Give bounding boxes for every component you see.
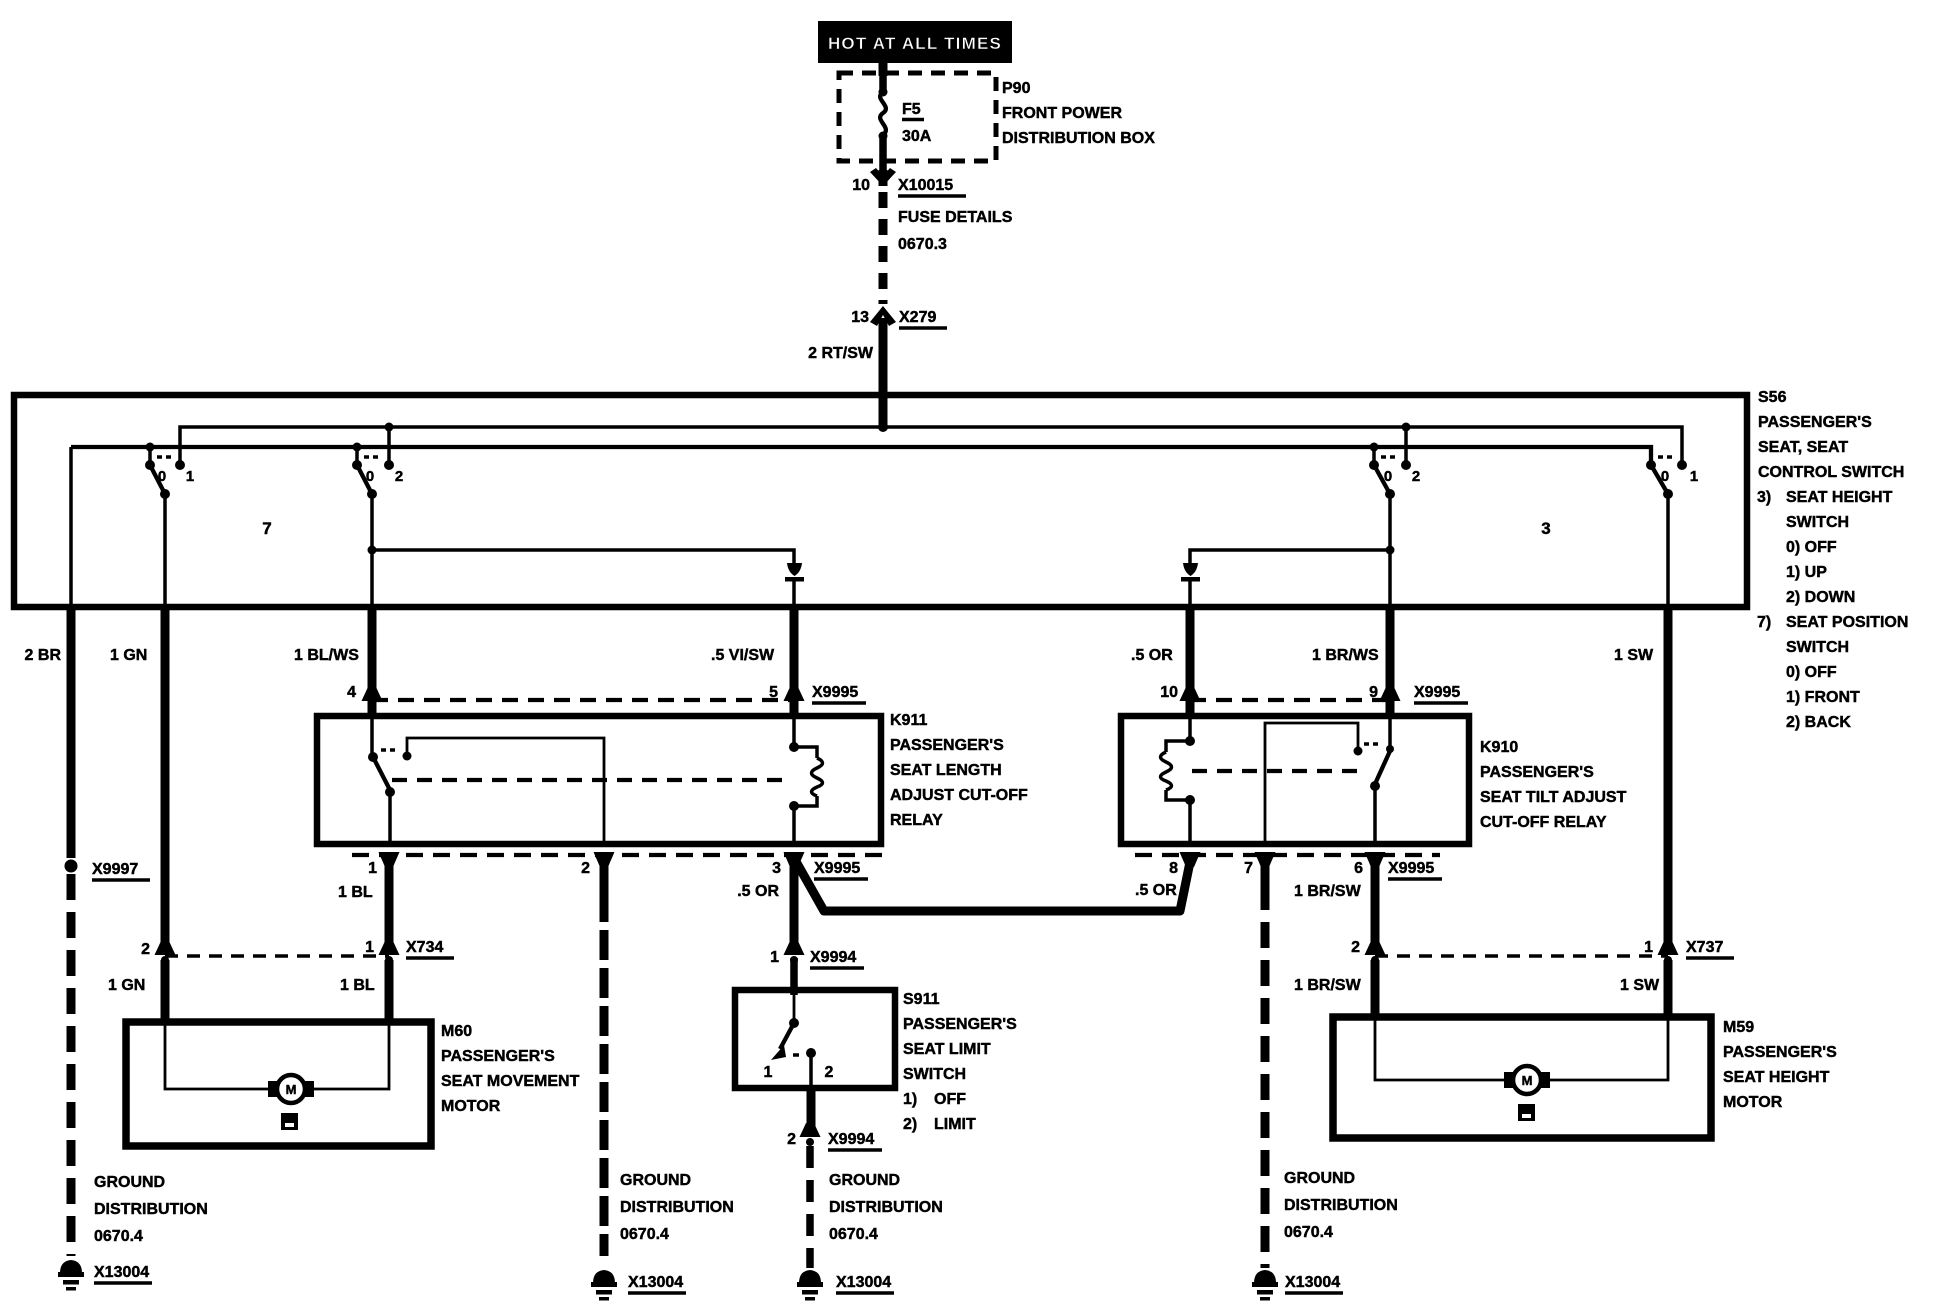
connector X10015 pin 10: [852, 168, 966, 196]
svg-text:2: 2: [395, 468, 403, 485]
connector X9995 top line K911: [347, 684, 866, 710]
svg-text:S911: S911: [903, 991, 940, 1008]
svg-text:X13004: X13004: [1285, 1274, 1340, 1291]
svg-text:M59: M59: [1723, 1019, 1754, 1036]
svg-text:2 BR: 2 BR: [25, 647, 62, 664]
label FUSE DETAILS 0670.3: [898, 209, 1013, 253]
wire 1SW X737 to M59: [1664, 960, 1673, 1017]
wire switch2 output to pin4 and crosslink: [368, 494, 795, 607]
wire 1SW to X737: [1664, 607, 1673, 948]
motor M59 internal wiring: [1375, 1020, 1668, 1080]
svg-text:0670.3: 0670.3: [898, 236, 947, 253]
svg-text:M: M: [286, 1082, 297, 1097]
svg-text:GROUND: GROUND: [620, 1172, 691, 1189]
svg-text:SEAT, SEAT: SEAT, SEAT: [1758, 439, 1848, 456]
node hot bus line1: [180, 422, 1682, 464]
svg-text:30A: 30A: [902, 128, 932, 145]
svg-text:X13004: X13004: [836, 1274, 891, 1291]
svg-text:1 BL/WS: 1 BL/WS: [294, 647, 359, 664]
svg-text:K910: K910: [1480, 739, 1518, 756]
svg-text:SWITCH: SWITCH: [1786, 514, 1849, 531]
svg-text:X9995: X9995: [814, 860, 860, 877]
wire 1BL K911 pin1 to X734: [338, 858, 389, 948]
connector X734 line: [141, 939, 454, 964]
wire 2BR inside box: [69, 447, 73, 607]
svg-text:2: 2: [1412, 468, 1420, 485]
svg-text:.5 VI/SW: .5 VI/SW: [711, 647, 775, 664]
svg-text:DISTRIBUTION: DISTRIBUTION: [620, 1199, 734, 1216]
svg-text:1) UP: 1) UP: [1786, 564, 1827, 581]
svg-text:LIMIT: LIMIT: [934, 1116, 976, 1133]
relay K911 contact: [368, 716, 604, 844]
wire K910 pin7 to ground: [1261, 858, 1270, 1268]
svg-text:M: M: [1522, 1073, 1533, 1088]
svg-text:0670.4: 0670.4: [620, 1226, 669, 1243]
svg-text:CONTROL SWITCH: CONTROL SWITCH: [1758, 464, 1904, 481]
svg-text:9: 9: [1369, 684, 1378, 701]
svg-text:.5 OR: .5 OR: [1131, 647, 1173, 664]
svg-text:X9997: X9997: [92, 861, 138, 878]
motor M59 symbol: [1504, 1066, 1550, 1094]
svg-text:X279: X279: [899, 309, 936, 326]
svg-text:X9994: X9994: [828, 1131, 874, 1148]
wire 1BR/SW K910 pin6 to X737: [1371, 858, 1380, 948]
connector X9995 top line K910: [1160, 684, 1468, 710]
svg-text:0: 0: [158, 468, 166, 485]
svg-text:2: 2: [581, 860, 590, 877]
wire 1BR/WS to K910 pin9: [1386, 607, 1395, 716]
svg-text:2: 2: [787, 1131, 796, 1148]
svg-text:1: 1: [368, 860, 377, 877]
svg-text:GROUND: GROUND: [1284, 1170, 1355, 1187]
svg-text:PASSENGER'S: PASSENGER'S: [441, 1048, 555, 1065]
switch S56.3 down pole: [1646, 457, 1698, 607]
wire labels below X734: [108, 977, 375, 994]
svg-text:0670.4: 0670.4: [94, 1228, 143, 1245]
wire X9994 dashed to ground: [806, 1146, 814, 1268]
svg-text:1: 1: [186, 468, 194, 485]
svg-text:6: 6: [1354, 860, 1363, 877]
wire K911 pin2 to ground: [600, 858, 609, 1256]
motor box M59 border: [1333, 1017, 1711, 1138]
label ground distribution under K910 pin7: [1284, 1170, 1398, 1241]
main feed wire into S56: [879, 318, 888, 428]
svg-text:X9994: X9994: [810, 949, 856, 966]
svg-text:X9995: X9995: [1388, 860, 1434, 877]
svg-text:8: 8: [1169, 860, 1178, 877]
svg-text:.5 OR: .5 OR: [737, 883, 779, 900]
dashed control line K910: [1192, 769, 1362, 773]
svg-text:SEAT POSITION: SEAT POSITION: [1786, 614, 1908, 631]
svg-text:1 GN: 1 GN: [108, 977, 145, 994]
svg-text:CUT-OFF RELAY: CUT-OFF RELAY: [1480, 814, 1607, 831]
wire 1GN X734 to M60: [161, 960, 170, 1022]
svg-text:S56: S56: [1758, 389, 1787, 406]
svg-text:1 BL: 1 BL: [338, 884, 373, 901]
svg-text:MOTOR: MOTOR: [1723, 1094, 1783, 1111]
label K910 relay: [1480, 739, 1627, 831]
svg-text:X9995: X9995: [812, 684, 858, 701]
svg-text:4: 4: [347, 684, 356, 701]
svg-text:0670.4: 0670.4: [1284, 1224, 1333, 1241]
svg-text:2: 2: [825, 1064, 834, 1081]
svg-text:3): 3): [1757, 489, 1771, 506]
svg-text:SWITCH: SWITCH: [1786, 639, 1849, 656]
fuse box P90 dashed border: [839, 73, 996, 161]
svg-text:PASSENGER'S: PASSENGER'S: [903, 1016, 1017, 1033]
svg-text:F5: F5: [902, 101, 921, 118]
svg-text:SEAT HEIGHT: SEAT HEIGHT: [1786, 489, 1893, 506]
label S56 switch description: [1757, 389, 1908, 731]
wire from title box to fuse box: [879, 60, 888, 76]
connector X737 line: [1351, 939, 1734, 964]
label ground distribution under K911 pin2: [620, 1172, 734, 1243]
switch S56.3 up pole: [1369, 427, 1420, 499]
motor box M60 border: [126, 1022, 431, 1146]
svg-text:1: 1: [365, 939, 374, 956]
svg-text:DISTRIBUTION: DISTRIBUTION: [829, 1199, 943, 1216]
svg-text:PASSENGER'S: PASSENGER'S: [1480, 764, 1594, 781]
label M59 motor: [1723, 1019, 1837, 1111]
svg-text:K911: K911: [890, 712, 927, 729]
svg-text:1 BR/WS: 1 BR/WS: [1312, 647, 1379, 664]
svg-text:.5 OR: .5 OR: [1135, 882, 1177, 899]
connector X9995 bottom line K910: [1135, 852, 1442, 900]
wire 1GN to X734: [161, 607, 170, 948]
svg-text:0) OFF: 0) OFF: [1786, 664, 1837, 681]
svg-text:1 GN: 1 GN: [110, 647, 147, 664]
seat icon M60: [281, 1113, 298, 1130]
ground X13004 left: [58, 1260, 152, 1291]
svg-text:1: 1: [1690, 468, 1698, 485]
svg-text:1: 1: [1644, 939, 1653, 956]
wire 1BL/WS to K911 pin4: [368, 607, 377, 716]
svg-text:X13004: X13004: [628, 1274, 683, 1291]
svg-text:PASSENGER'S: PASSENGER'S: [1758, 414, 1872, 431]
svg-text:7): 7): [1757, 614, 1771, 631]
connector X279 pin 13: [851, 306, 947, 328]
svg-text:SEAT HEIGHT: SEAT HEIGHT: [1723, 1069, 1830, 1086]
relay K910 coil: [1161, 716, 1196, 844]
svg-text:SEAT LIMIT: SEAT LIMIT: [903, 1041, 991, 1058]
connector X9994 pin2: [787, 1123, 882, 1150]
relay K911 coil: [789, 716, 823, 844]
motor M60 internal wiring: [165, 1025, 389, 1089]
svg-text:1) FRONT: 1) FRONT: [1786, 689, 1860, 706]
svg-text:FUSE DETAILS: FUSE DETAILS: [898, 209, 1013, 226]
svg-text:SEAT LENGTH: SEAT LENGTH: [890, 762, 1002, 779]
svg-text:PASSENGER'S: PASSENGER'S: [890, 737, 1004, 754]
switch box S56 border: [14, 395, 1747, 607]
label M60 motor: [441, 1023, 580, 1115]
switch S56.7 back pole: [352, 427, 403, 499]
switch box S911 border: [735, 990, 895, 1088]
svg-text:X9995: X9995: [1414, 684, 1460, 701]
svg-text:0: 0: [1384, 468, 1392, 485]
svg-text:7: 7: [262, 519, 271, 538]
label ground distribution under S911: [829, 1172, 943, 1243]
svg-text:FRONT POWER: FRONT POWER: [1002, 105, 1122, 122]
svg-text:3: 3: [1541, 519, 1550, 538]
svg-text:1 BL: 1 BL: [340, 977, 375, 994]
svg-text:M60: M60: [441, 1023, 472, 1040]
svg-text:P90: P90: [1002, 80, 1031, 97]
svg-text:7: 7: [1244, 860, 1253, 877]
svg-text:X13004: X13004: [94, 1264, 149, 1281]
wire S911 pin2 to X9994: [807, 1086, 816, 1132]
connector X9995 bottom line K911: [352, 852, 884, 900]
svg-text:1 BR/SW: 1 BR/SW: [1294, 883, 1362, 900]
svg-text:0670.4: 0670.4: [829, 1226, 878, 1243]
svg-text:2) BACK: 2) BACK: [1786, 714, 1851, 731]
label K911 relay: [890, 712, 1028, 829]
plug symbol right: [1183, 563, 1198, 576]
svg-text:MOTOR: MOTOR: [441, 1098, 501, 1115]
svg-text:DISTRIBUTION: DISTRIBUTION: [94, 1201, 208, 1218]
svg-text:2: 2: [1351, 939, 1360, 956]
svg-text:0: 0: [366, 468, 374, 485]
connector X9994 pin1: [770, 941, 864, 968]
wire 2BR below box: [67, 607, 76, 858]
svg-text:SEAT TILT ADJUST: SEAT TILT ADJUST: [1480, 789, 1627, 806]
svg-text:PASSENGER'S: PASSENGER'S: [1723, 1044, 1837, 1061]
wire switch3 output to pin9 and crosslink: [1190, 494, 1395, 607]
relay box K910: [1121, 716, 1469, 844]
svg-text:X10015: X10015: [898, 177, 953, 194]
svg-text:DISTRIBUTION BOX: DISTRIBUTION BOX: [1002, 130, 1155, 147]
svg-text:1 SW: 1 SW: [1620, 977, 1660, 994]
label ground distribution left: [94, 1174, 208, 1245]
wire .5 OR to K910 pin10: [1186, 607, 1195, 716]
ground X13004 under K910 pin7: [1252, 1270, 1343, 1301]
svg-text:2: 2: [141, 941, 150, 958]
wire plug to box bottom left: [792, 581, 796, 607]
ground X13004 under S911: [797, 1270, 894, 1301]
svg-text:SWITCH: SWITCH: [903, 1066, 966, 1083]
svg-text:X737: X737: [1686, 939, 1723, 956]
connector X9997: [65, 860, 151, 881]
svg-text:OFF: OFF: [934, 1091, 966, 1108]
wire 1BL X734 to M60: [385, 960, 394, 1022]
svg-text:SEAT MOVEMENT: SEAT MOVEMENT: [441, 1073, 580, 1090]
hot-at-all-times title box: [818, 21, 1012, 63]
dashed wire X10015 to X279: [879, 192, 888, 304]
fuse value label F5 30A: [902, 101, 932, 145]
wire .5 OR crosslink K911 pin3 to K910 pin8: [794, 858, 1190, 911]
node ground bus line2: [71, 443, 1651, 465]
relay K910 contact: [1265, 716, 1394, 844]
svg-text:GROUND: GROUND: [94, 1174, 165, 1191]
label S911 seat limit switch: [903, 991, 1017, 1133]
svg-text:2): 2): [903, 1116, 917, 1133]
svg-text:5: 5: [769, 684, 778, 701]
svg-text:3: 3: [772, 860, 781, 877]
svg-text:1 SW: 1 SW: [1614, 647, 1654, 664]
svg-text:RELAY: RELAY: [890, 812, 943, 829]
svg-text:DISTRIBUTION: DISTRIBUTION: [1284, 1197, 1398, 1214]
fuse F5: [879, 73, 888, 170]
svg-text:13: 13: [851, 309, 869, 326]
svg-text:2 RT/SW: 2 RT/SW: [808, 345, 874, 362]
svg-text:2) DOWN: 2) DOWN: [1786, 589, 1855, 606]
svg-text:1): 1): [903, 1091, 917, 1108]
wire labels below X737: [1294, 977, 1660, 994]
svg-text:1: 1: [764, 1064, 773, 1081]
wire .5 VI/SW to K911 pin5: [790, 607, 799, 716]
svg-text:1 BR/SW: 1 BR/SW: [1294, 977, 1362, 994]
wire plug to box bottom right: [1188, 581, 1192, 607]
seat icon M59: [1518, 1104, 1535, 1121]
wire 1BR/SW X737 to M59: [1371, 960, 1380, 1017]
wire X9994 to S911: [790, 958, 798, 995]
plug symbol left: [787, 563, 802, 576]
svg-text:GROUND: GROUND: [829, 1172, 900, 1189]
svg-text:10: 10: [1160, 684, 1178, 701]
wire 2BR dashed to ground: [67, 874, 76, 1256]
relay box K911: [317, 716, 881, 844]
switch S911 contacts: [764, 990, 834, 1088]
svg-text:ADJUST CUT-OFF: ADJUST CUT-OFF: [890, 787, 1028, 804]
switch S56.7 front pole: [145, 447, 194, 607]
wire label row below S56: [25, 647, 1654, 664]
svg-text:0: 0: [1661, 468, 1669, 485]
wire K911 pin3 to X9994: [790, 858, 799, 950]
label P90 FRONT POWER DISTRIBUTION BOX: [1002, 80, 1155, 147]
svg-text:0) OFF: 0) OFF: [1786, 539, 1837, 556]
svg-text:X734: X734: [406, 939, 443, 956]
svg-text:10: 10: [852, 177, 870, 194]
ground X13004 under K911 pin2: [591, 1270, 686, 1301]
svg-text:1: 1: [770, 949, 779, 966]
motor M60 symbol: [268, 1075, 314, 1103]
svg-text:HOT AT ALL TIMES: HOT AT ALL TIMES: [828, 34, 1002, 53]
dashed control line K911: [392, 778, 790, 782]
